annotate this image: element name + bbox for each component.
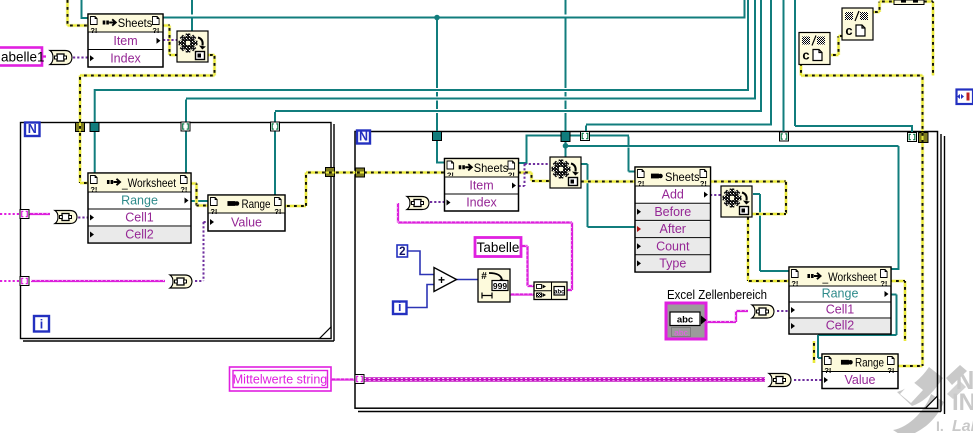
svg-text:Index: Index [466,196,497,210]
svg-text:+: + [438,273,445,287]
svg-text:Add: Add [662,188,684,202]
svg-text:Count: Count [656,239,690,253]
svg-text:abc: abc [554,289,565,295]
svg-text:999: 999 [493,281,507,291]
svg-text:N: N [28,122,37,136]
svg-text:i: i [398,300,401,314]
svg-text:?!: ?! [447,171,454,180]
svg-text:Range: Range [822,287,859,301]
svg-text:Sheets: Sheets [118,16,153,30]
svg-text:?!: ?! [637,179,644,188]
svg-text:IN: IN [952,389,973,416]
svg-text:c: c [802,48,809,63]
svg-text:Range: Range [855,356,884,370]
svg-text:c: c [845,23,852,38]
svg-text:abc: abc [677,315,693,326]
svg-text:?!: ?! [880,279,887,288]
svg-text:Before: Before [654,205,691,219]
svg-text:Range: Range [241,197,270,211]
svg-text:Type: Type [659,257,686,271]
svg-text:N: N [359,129,368,143]
svg-text:?!: ?! [90,185,97,194]
svg-text:?!: ?! [508,171,515,180]
svg-text:LabV: LabV [952,418,973,433]
svg-text:Sheets: Sheets [474,161,509,175]
svg-text:?!: ?! [791,279,798,288]
svg-text:_Worksheet: _Worksheet [121,176,177,190]
svg-text:Item: Item [113,34,137,48]
svg-text:Cell2: Cell2 [125,228,154,242]
svg-text:?!: ?! [700,179,707,188]
svg-text:Tabelle: Tabelle [477,240,520,255]
svg-text:Cell2: Cell2 [826,319,855,333]
svg-text:Item: Item [469,179,493,193]
svg-text:After: After [660,222,686,236]
svg-text:2: 2 [399,246,405,258]
svg-text:Cell1: Cell1 [826,303,855,317]
svg-text:#: # [481,271,487,282]
svg-text:?!: ?! [152,26,159,35]
svg-text:?!: ?! [210,207,217,216]
svg-text:?!: ?! [887,366,894,375]
svg-text:i: i [40,317,43,331]
svg-text:Value: Value [231,216,262,230]
svg-text:Cell1: Cell1 [125,211,154,225]
svg-text:Index: Index [110,52,141,66]
svg-text:Excel Zellenbereich: Excel Zellenbereich [667,288,767,302]
svg-text:Mittelwerte string: Mittelwerte string [233,373,328,387]
svg-text:?!: ?! [90,26,97,35]
svg-text:I.: I. [936,418,944,433]
svg-text:Value: Value [844,373,875,387]
svg-text:abelle1: abelle1 [1,50,45,65]
svg-text:?!: ?! [274,207,281,216]
svg-text:_Worksheet: _Worksheet [822,270,878,284]
svg-text:abc: abc [674,328,688,338]
svg-text:?!: ?! [180,185,187,194]
svg-text:Sheets: Sheets [665,170,700,184]
svg-text:Range: Range [121,194,158,208]
svg-text:?!: ?! [824,366,831,375]
